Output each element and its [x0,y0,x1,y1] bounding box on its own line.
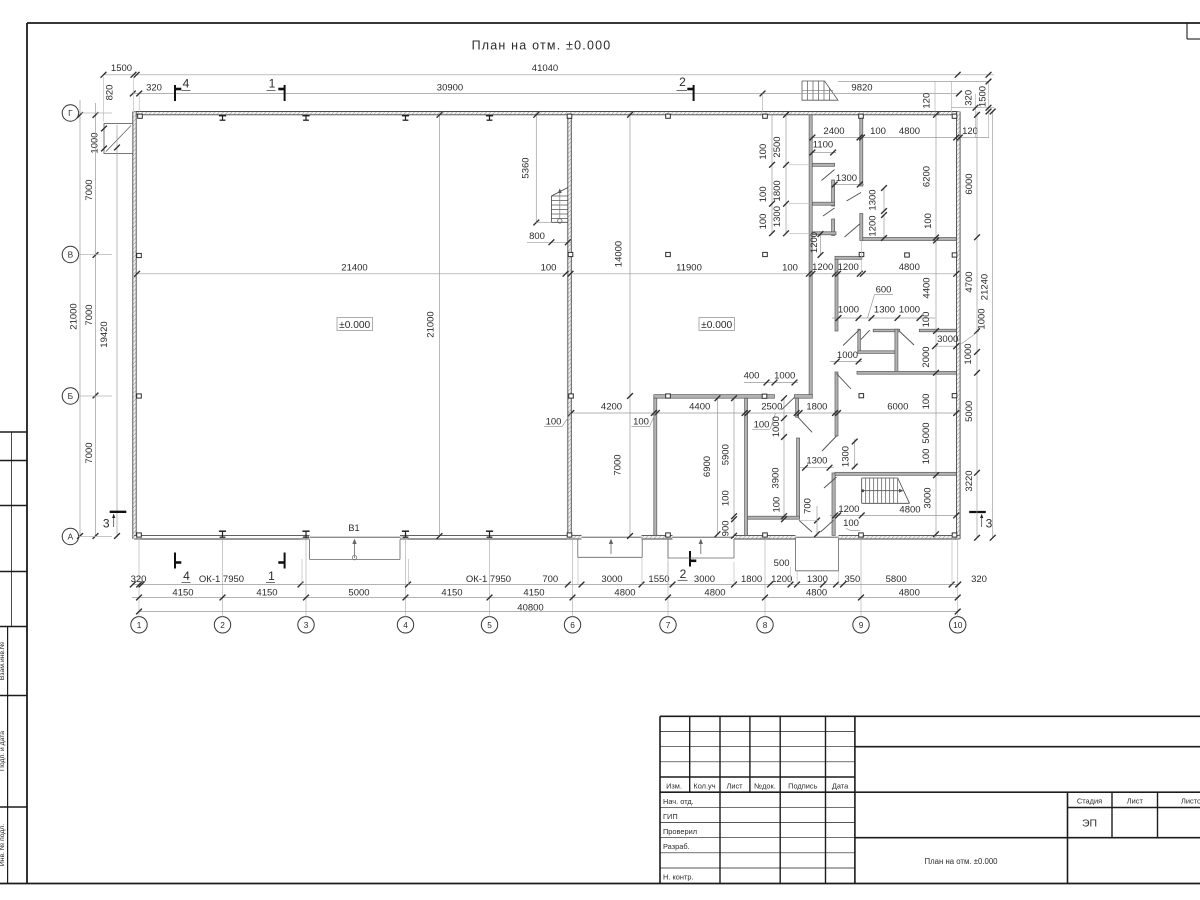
svg-text:4800: 4800 [899,587,920,598]
svg-text:1300: 1300 [874,304,895,315]
svg-text:1100: 1100 [813,140,833,151]
svg-text:2: 2 [679,75,686,89]
svg-text:500: 500 [774,558,790,569]
svg-text:2000: 2000 [921,346,932,367]
svg-text:2400: 2400 [823,126,844,137]
svg-text:Лист: Лист [726,782,743,791]
svg-text:14000: 14000 [614,241,625,267]
svg-text:Н. контр.: Н. контр. [663,873,694,882]
svg-text:1200: 1200 [809,232,820,253]
svg-text:3000: 3000 [937,334,958,345]
svg-text:100: 100 [921,394,932,410]
svg-text:100: 100 [771,497,782,513]
svg-text:Б: Б [68,391,74,401]
svg-text:900: 900 [721,520,732,536]
svg-text:1300: 1300 [772,206,783,227]
svg-text:1000: 1000 [837,350,858,361]
svg-text:1200: 1200 [868,215,879,236]
svg-text:5360: 5360 [521,157,532,178]
svg-text:6: 6 [570,620,575,630]
svg-text:3: 3 [304,620,309,630]
svg-text:5000: 5000 [964,401,975,422]
svg-text:1500: 1500 [977,86,988,107]
svg-text:100: 100 [758,144,769,160]
svg-text:7000: 7000 [84,304,95,325]
svg-text:3900: 3900 [770,467,781,488]
svg-text:4150: 4150 [172,587,193,598]
svg-text:Разраб.: Разраб. [663,842,690,851]
svg-text:1300: 1300 [840,446,851,467]
svg-text:100: 100 [921,449,932,465]
svg-text:820: 820 [105,85,116,101]
svg-text:1000: 1000 [977,308,988,329]
svg-text:41040: 41040 [532,63,558,74]
svg-text:5: 5 [487,620,492,630]
svg-text:1800: 1800 [806,402,827,413]
svg-text:1000: 1000 [774,371,795,382]
svg-text:40800: 40800 [517,602,543,613]
svg-text:Проверил: Проверил [663,827,697,836]
svg-text:6200: 6200 [922,166,933,187]
svg-text:1000: 1000 [963,343,974,364]
svg-text:Взам.инв.№: Взам.инв.№ [0,642,6,680]
svg-text:320: 320 [964,90,975,106]
svg-text:План на отм. ±0.000: План на отм. ±0.000 [925,857,999,866]
svg-text:ОК-1 7950: ОК-1 7950 [466,574,511,585]
svg-text:1: 1 [137,620,142,630]
svg-text:Подпись: Подпись [788,782,817,791]
svg-text:4400: 4400 [922,277,933,298]
svg-text:2: 2 [680,567,687,581]
svg-text:4800: 4800 [806,587,827,598]
svg-text:4: 4 [183,77,190,91]
svg-text:±0.000: ±0.000 [339,320,370,331]
svg-text:5000: 5000 [921,422,932,443]
svg-text:10: 10 [953,620,963,630]
svg-text:3: 3 [103,517,110,531]
svg-text:4700: 4700 [964,271,975,292]
svg-text:30900: 30900 [437,82,463,93]
svg-text:100: 100 [721,490,732,506]
svg-text:Изм.: Изм. [666,782,682,791]
svg-text:700: 700 [542,574,558,585]
svg-text:100: 100 [921,312,932,328]
svg-text:4: 4 [183,569,190,583]
svg-text:Листов: Листов [1181,797,1200,806]
svg-text:100: 100 [754,419,770,430]
svg-text:5900: 5900 [721,444,732,465]
svg-text:1: 1 [268,569,275,583]
svg-text:320: 320 [131,574,147,585]
svg-text:1300: 1300 [806,455,827,466]
svg-text:4800: 4800 [899,126,920,137]
svg-text:21240: 21240 [980,274,991,300]
svg-text:21000: 21000 [426,311,437,337]
svg-text:5800: 5800 [886,574,907,585]
svg-text:100: 100 [843,518,859,529]
svg-text:100: 100 [923,213,934,229]
svg-text:1550: 1550 [648,574,669,585]
svg-text:ОК-1 7950: ОК-1 7950 [199,574,244,585]
svg-text:1000: 1000 [90,132,101,153]
svg-text:100: 100 [782,263,798,274]
svg-text:1000: 1000 [838,304,859,315]
svg-text:320: 320 [146,82,162,93]
svg-text:Г: Г [68,108,73,118]
svg-text:±0.000: ±0.000 [701,320,732,331]
svg-text:2500: 2500 [761,402,782,413]
svg-text:800: 800 [529,231,545,242]
svg-text:6900: 6900 [702,456,713,477]
svg-text:4800: 4800 [899,262,920,273]
svg-text:21000: 21000 [69,303,80,329]
svg-text:3: 3 [986,517,993,531]
svg-text:Стадия: Стадия [1077,797,1102,806]
svg-text:100: 100 [870,126,886,137]
svg-text:4150: 4150 [441,587,462,598]
svg-text:Нач. отд.: Нач. отд. [663,797,694,806]
svg-text:120: 120 [962,126,978,137]
svg-text:19420: 19420 [99,321,110,347]
svg-text:В: В [68,250,74,260]
svg-text:4200: 4200 [601,402,622,413]
svg-text:1000: 1000 [899,304,920,315]
svg-text:21400: 21400 [341,263,367,274]
svg-text:В1: В1 [348,523,359,533]
svg-text:1500: 1500 [111,63,132,74]
svg-text:9: 9 [859,620,864,630]
svg-text:8: 8 [763,620,768,630]
svg-text:5000: 5000 [348,587,369,598]
svg-text:1200: 1200 [771,574,792,585]
svg-text:А: А [68,532,74,542]
svg-text:4150: 4150 [523,587,544,598]
svg-text:Лист: Лист [1127,797,1144,806]
svg-text:2500: 2500 [772,136,783,157]
svg-text:План на отм. ±0.000: План на отм. ±0.000 [472,39,612,53]
svg-text:7000: 7000 [84,442,95,463]
svg-text:600: 600 [876,285,892,296]
svg-text:400: 400 [744,371,760,382]
svg-text:100: 100 [633,417,649,428]
svg-text:2: 2 [220,620,225,630]
svg-text:4800: 4800 [899,504,920,515]
svg-text:1200: 1200 [838,504,859,515]
svg-text:1300: 1300 [836,173,857,184]
svg-text:700: 700 [803,498,814,514]
svg-text:100: 100 [546,417,562,428]
svg-text:ГИП: ГИП [663,812,678,821]
svg-text:Кол.уч: Кол.уч [693,782,715,791]
svg-text:7000: 7000 [84,179,95,200]
svg-text:11900: 11900 [676,263,702,274]
svg-text:1: 1 [269,77,276,91]
svg-text:350: 350 [844,574,860,585]
svg-text:3000: 3000 [601,574,622,585]
svg-text:3000: 3000 [923,487,934,508]
svg-text:Дата: Дата [832,782,849,791]
svg-text:6000: 6000 [887,402,908,413]
svg-text:1800: 1800 [741,574,762,585]
svg-text:4800: 4800 [614,587,635,598]
svg-text:9820: 9820 [851,82,872,93]
svg-text:Инв. № подл.: Инв. № подл. [0,824,6,866]
svg-text:6000: 6000 [964,173,975,194]
svg-text:120: 120 [922,93,933,109]
svg-text:100: 100 [541,263,557,274]
svg-text:4800: 4800 [704,587,725,598]
svg-text:1000: 1000 [771,416,782,437]
svg-text:1300: 1300 [868,189,879,210]
svg-text:1800: 1800 [772,180,783,201]
svg-text:100: 100 [758,214,769,230]
svg-text:7000: 7000 [613,454,624,475]
svg-text:4400: 4400 [689,402,710,413]
svg-text:4: 4 [403,620,408,630]
svg-text:ЭП: ЭП [1082,818,1097,830]
svg-text:Подп. и дата: Подп. и дата [0,731,6,771]
svg-text:3220: 3220 [964,470,975,491]
svg-text:№док.: №док. [754,782,776,791]
svg-text:4150: 4150 [256,587,277,598]
svg-text:7: 7 [666,620,671,630]
svg-text:100: 100 [758,186,769,202]
svg-text:320: 320 [971,574,987,585]
svg-text:3000: 3000 [694,574,715,585]
